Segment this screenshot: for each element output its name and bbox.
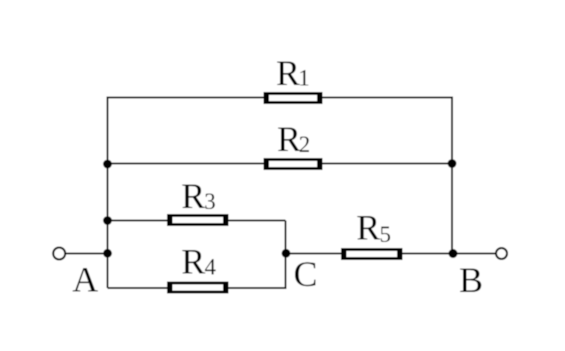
svg-text:R: R — [356, 207, 380, 247]
svg-text:3: 3 — [204, 189, 216, 214]
svg-text:A: A — [72, 259, 98, 299]
svg-text:1: 1 — [298, 66, 310, 91]
svg-text:2: 2 — [299, 132, 311, 157]
svg-text:R: R — [276, 53, 300, 93]
svg-text:R: R — [181, 176, 205, 216]
svg-text:R: R — [181, 242, 205, 282]
svg-text:B: B — [459, 260, 483, 300]
svg-text:5: 5 — [380, 222, 392, 247]
svg-text:C: C — [294, 254, 318, 294]
svg-text:4: 4 — [205, 255, 217, 280]
svg-text:R: R — [277, 119, 301, 159]
